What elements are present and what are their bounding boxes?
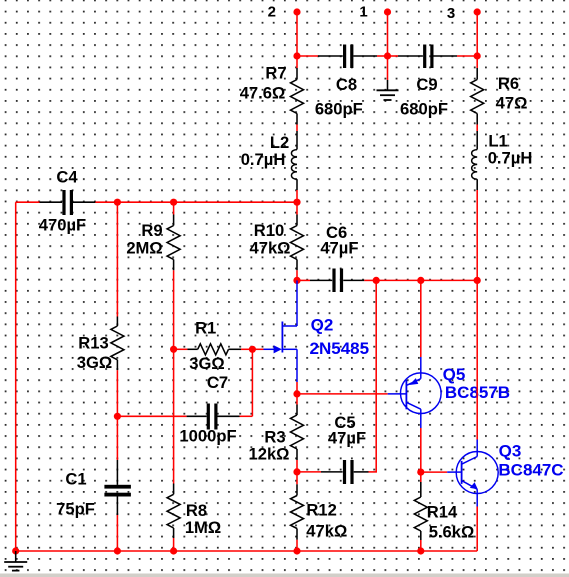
svg-text:R9: R9 (141, 221, 162, 240)
svg-text:R13: R13 (78, 334, 108, 353)
svg-text:C7: C7 (207, 373, 228, 392)
svg-text:680pF: 680pF (315, 100, 363, 119)
svg-text:5.6kΩ: 5.6kΩ (429, 523, 475, 542)
svg-text:47kΩ: 47kΩ (250, 239, 291, 258)
svg-text:3GΩ: 3GΩ (189, 354, 224, 373)
svg-text:680pF: 680pF (400, 100, 448, 119)
svg-text:C9: C9 (416, 75, 437, 94)
svg-text:1: 1 (359, 4, 367, 21)
svg-text:47Ω: 47Ω (496, 94, 528, 113)
svg-text:3GΩ: 3GΩ (77, 353, 112, 372)
svg-text:2: 2 (268, 4, 276, 21)
svg-text:R12: R12 (306, 501, 336, 520)
svg-text:BC847C: BC847C (498, 460, 563, 479)
svg-text:R14: R14 (427, 503, 458, 522)
svg-text:2MΩ: 2MΩ (126, 239, 162, 258)
svg-text:75pF: 75pF (56, 500, 95, 519)
svg-text:C4: C4 (56, 168, 78, 187)
svg-text:C1: C1 (65, 470, 86, 489)
svg-text:Q5: Q5 (443, 365, 466, 384)
svg-text:470µF: 470µF (39, 216, 86, 235)
svg-text:0.7µH: 0.7µH (241, 150, 286, 169)
svg-text:0.7µH: 0.7µH (488, 149, 533, 168)
svg-text:47µF: 47µF (328, 429, 366, 448)
svg-text:3: 3 (447, 5, 455, 22)
svg-text:R10: R10 (254, 221, 284, 240)
svg-text:47.6Ω: 47.6Ω (240, 84, 286, 103)
svg-text:12kΩ: 12kΩ (249, 445, 290, 464)
svg-text:R1: R1 (195, 318, 216, 337)
svg-text:1MΩ: 1MΩ (185, 518, 221, 537)
svg-text:R6: R6 (498, 74, 519, 93)
svg-text:2N5485: 2N5485 (310, 339, 370, 358)
svg-text:47µF: 47µF (320, 238, 358, 257)
svg-text:Q2: Q2 (311, 316, 334, 335)
svg-text:1000pF: 1000pF (179, 427, 236, 446)
svg-text:Q3: Q3 (499, 441, 522, 460)
svg-text:R7: R7 (265, 64, 286, 83)
svg-text:C8: C8 (336, 75, 357, 94)
svg-text:47kΩ: 47kΩ (306, 521, 347, 540)
